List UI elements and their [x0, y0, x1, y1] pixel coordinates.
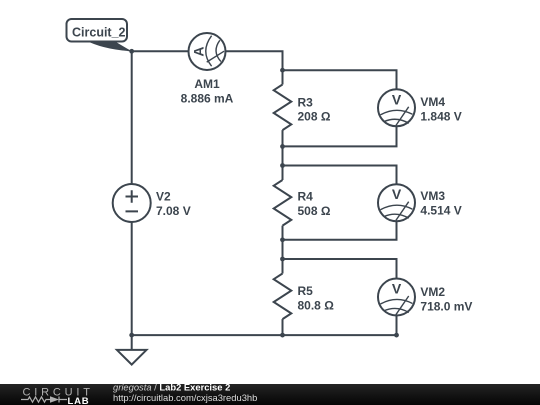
wire top horizontal right segment with corner down: [226, 51, 283, 70]
svg-text:R5: R5: [298, 284, 314, 298]
wire VM3 top branch: [283, 166, 397, 185]
svg-text:VM3: VM3: [420, 189, 445, 203]
wire left rail lower: [131, 222, 133, 335]
resistor R4: [274, 180, 292, 226]
svg-text:griegosta / Lab2 Exercise 2: griegosta / Lab2 Exercise 2: [113, 381, 230, 392]
wire middle rail between R3 and R4: [282, 146, 284, 165]
wire VM2 bottom branch: [396, 316, 398, 336]
voltage source V2: [113, 184, 151, 222]
svg-text:V: V: [392, 91, 402, 107]
svg-text:80.8 Ω: 80.8 Ω: [298, 298, 335, 312]
svg-text:1.848 V: 1.848 V: [420, 109, 461, 123]
wire middle rail R4 top lead: [282, 166, 284, 181]
svg-text:R4: R4: [298, 190, 314, 204]
svg-text:7.08 V: 7.08 V: [156, 204, 191, 218]
svg-text:V: V: [392, 281, 402, 297]
resistor R3: [274, 85, 292, 131]
wire middle rail R3 bottom lead: [282, 130, 284, 146]
node R5 top: [280, 257, 285, 262]
logo schematic line with resistor and diode: [21, 397, 67, 403]
node R4 bottom: [280, 237, 285, 242]
wire VM3 bottom branch: [283, 221, 397, 240]
svg-text:LAB: LAB: [68, 396, 90, 405]
footer bar: [0, 384, 540, 405]
wire middle rail R3 top lead: [282, 70, 284, 84]
node VM2 bottom rail junction: [394, 333, 399, 338]
node A top-left junction: [129, 49, 134, 54]
voltmeter VM3: [378, 184, 415, 221]
logo diode triangle: [50, 396, 59, 403]
resistor R5: [274, 274, 292, 320]
svg-text:8.886 mA: 8.886 mA: [181, 92, 234, 106]
svg-text:V2: V2: [156, 190, 171, 204]
wire middle rail R5 top lead: [282, 259, 284, 274]
node ground junction: [129, 333, 134, 338]
svg-text:VM4: VM4: [420, 95, 445, 109]
svg-text:VM2: VM2: [420, 285, 445, 299]
wire VM4 bottom branch: [283, 126, 397, 146]
wire top horizontal left segment: [132, 50, 189, 52]
node R3 bottom: [280, 144, 285, 149]
node R5 bottom rail junction: [280, 333, 285, 338]
wire bottom rail: [132, 334, 397, 336]
svg-text:Circuit_2: Circuit_2: [72, 25, 126, 39]
svg-text:718.0 mV: 718.0 mV: [420, 299, 472, 313]
ground: [117, 335, 147, 365]
svg-text:A: A: [191, 46, 207, 56]
svg-text:V: V: [392, 186, 402, 202]
svg-text:4.514 V: 4.514 V: [420, 204, 461, 218]
svg-text:208 Ω: 208 Ω: [298, 110, 331, 124]
svg-text:AM1: AM1: [194, 77, 220, 91]
wire VM2 top branch: [283, 259, 397, 279]
node R3 top: [280, 68, 285, 73]
wire left rail upper: [131, 51, 133, 184]
wire middle rail R5 bottom lead: [282, 319, 284, 335]
voltmeter VM4: [378, 89, 415, 126]
svg-text:R3: R3: [298, 95, 314, 109]
wire VM4 top branch: [283, 70, 397, 89]
voltmeter VM2: [378, 279, 415, 316]
label flag Circuit_2: [67, 19, 132, 51]
svg-text:508 Ω: 508 Ω: [298, 204, 331, 218]
wire middle rail between R4 and R5: [282, 240, 284, 259]
wire middle rail R4 bottom lead: [282, 226, 284, 240]
svg-text:http://circuitlab.com/cxjsa3re: http://circuitlab.com/cxjsa3redu3hb: [113, 392, 257, 403]
ammeter AM1: [189, 33, 226, 70]
node R4 top: [280, 163, 285, 168]
